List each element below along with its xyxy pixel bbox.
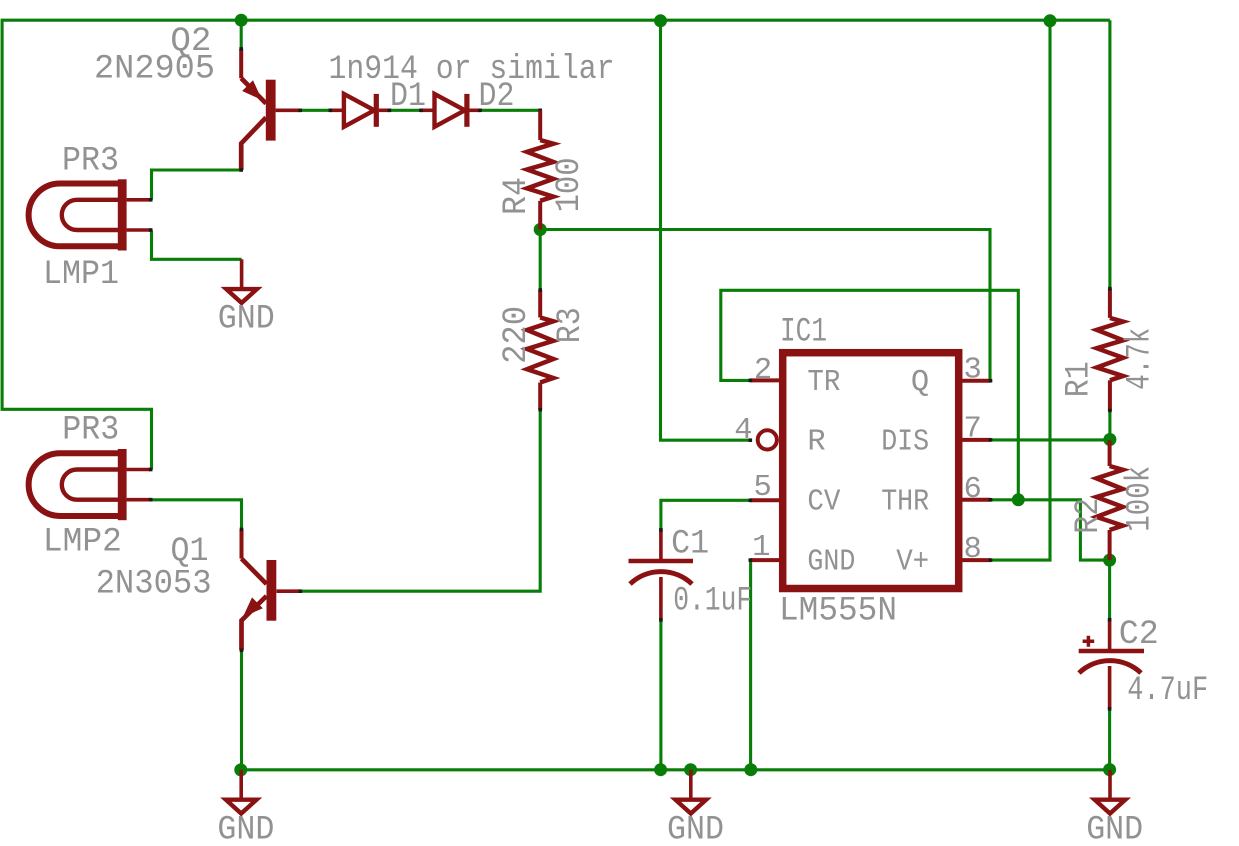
svg-text:THR: THR [881,486,929,520]
IC1 pin 8 V+ stub [962,558,991,562]
svg-text:2N3053: 2N3053 [96,565,212,604]
wire IC1 pin 7 DIS to R1/R2 node [991,438,1110,441]
wire rail to Q2 emitter [240,20,243,49]
svg-text:C2: C2 [1119,615,1159,654]
wire rail to R1 top [1108,20,1111,288]
svg-text:DIS: DIS [881,426,929,460]
svg-text:GND: GND [1086,811,1143,846]
svg-text:8: 8 [964,533,982,567]
svg-text:Q: Q [911,366,929,400]
IC1 pin 3 Q stub [962,379,991,383]
svg-text:3: 3 [964,354,982,388]
IC1 pin 4 R stub and bubble [758,430,777,449]
capacitor C2 (4.7uF, polarized) [1108,620,1112,649]
svg-text:2: 2 [754,354,772,388]
wire IC1 pin 1 GND to ground rail [749,560,752,770]
wire R3 bottom to Q1 base [300,410,540,592]
svg-text:LM555N: LM555N [779,592,897,631]
svg-text:R1: R1 [1060,361,1099,397]
op-amp/timer IC1 LM555N body [783,353,959,589]
svg-text:R2: R2 [1069,498,1108,534]
svg-text:R3: R3 [551,307,590,343]
junction R1 / R2 / DIS [1103,433,1116,446]
wire C2 bottom to ground rail [1108,709,1111,770]
resistor R3 (220) [527,318,553,383]
junction rail / pin4 wire [654,14,667,27]
wire node to C2 top [1108,560,1111,620]
svg-text:5: 5 [753,471,771,505]
transistor Q1 (2N3053, NPN) [242,529,301,650]
wire ground rail [241,768,1110,771]
svg-text:TR: TR [807,366,840,400]
svg-text:GND: GND [218,300,275,339]
svg-text:LMP1: LMP1 [43,255,119,294]
IC1 pin 2 TR stub [750,378,779,382]
ground symbol GND bottom middle [689,770,693,800]
svg-text:6: 6 [964,473,982,507]
svg-text:GND: GND [667,810,724,846]
svg-text:V+: V+ [896,546,929,580]
resistor R2 (100k) [1096,466,1122,530]
junction ground rail / C2 [1103,763,1116,776]
wire rail to IC1 pin 4 R [661,20,751,440]
wire D2 cathode to R4 top [481,109,541,112]
junction R4 / R3 / Q output [534,223,547,236]
wire node R4/R3 to IC1 pin 3 Q [540,230,990,381]
svg-text:R: R [807,426,825,460]
wire C1 top to IC1 pin 5 CV [661,500,750,530]
lamp PR3 pins [127,468,151,472]
svg-text:2N2905: 2N2905 [94,50,215,89]
wire left border to LMP2 top pin [2,20,151,469]
wire Q2 base to D1 anode [300,109,330,112]
resistor R4 (100) [527,140,553,201]
IC1 pin 1 GND stub [750,558,779,562]
transistor Q2 (2N2905, PNP) [241,49,300,170]
wire Q2 collector to LMP1 top pin [152,170,242,200]
diode D2 (1n914) [421,109,435,113]
svg-text:GND: GND [807,546,855,580]
svg-text:LMP2: LMP2 [43,522,122,561]
wire IC1 pin 2 TR loop to THR node [721,290,1019,500]
junction ground rail / pin1 wire [744,763,757,776]
wire LMP2 bottom pin to Q1 collector [151,500,242,530]
resistor R3 bottom lead [538,383,542,410]
svg-text:1: 1 [752,531,770,565]
svg-text:1n914 or similar: 1n914 or similar [329,50,615,89]
wire C1 bottom to ground rail [659,620,662,770]
junction ground rail / Q1 emitter [234,763,247,776]
wire R1 bottom to node [1108,412,1111,440]
svg-text:0.1uF: 0.1uF [673,581,752,620]
junction rail / V+ wire [1044,14,1057,27]
svg-text:C1: C1 [671,525,709,564]
junction R2 / C2 / THR [1103,554,1116,567]
svg-text:R4: R4 [497,177,536,215]
C2 plus sign [1083,636,1095,647]
svg-text:7: 7 [964,412,982,446]
wire D1 cathode to D2 anode [389,109,421,112]
wire +V top rail [1,19,1110,22]
svg-text:100k: 100k [1120,466,1159,532]
resistor R1 top lead [1108,289,1112,318]
svg-text:PR3: PR3 [62,141,119,180]
junction rail / Q2 emitter [235,14,248,27]
resistor R4 top lead [538,110,542,140]
resistor R2 top lead [1108,440,1112,466]
svg-text:PR3: PR3 [62,411,119,450]
wire node to R3 top [539,230,542,291]
ground symbol GND bottom left [239,770,243,800]
lamp PR3 filament [62,200,120,230]
svg-text:220: 220 [497,306,536,364]
svg-text:CV: CV [807,486,841,520]
diode D1 (1n914) [330,109,344,113]
resistor R1 (4.7k) [1097,318,1123,380]
IC1 pin 7 DIS stub [962,438,991,442]
IC1 pin 5 CV stub [750,498,779,502]
ground symbol GND under LMP1 [240,259,244,289]
lamp PR3 (PR3) body [29,184,119,247]
wire LMP1 bottom pin to GND stub [152,230,242,259]
svg-text:GND: GND [217,811,274,846]
resistor R3 top lead [538,290,542,318]
resistor R2 bottom lead [1108,530,1112,560]
wire IC1 pin 8 V+ to top rail [991,20,1051,560]
svg-text:4.7k: 4.7k [1120,328,1159,390]
junction THR / TR loop [1012,493,1025,506]
lamp PR3 filament [62,470,120,500]
wire Q1 emitter to ground rail [240,650,243,770]
svg-text:4: 4 [734,414,752,448]
lamp PR3 pins [127,198,151,202]
resistor R4 bottom lead [538,201,542,230]
wire IC1 pin 6 THR to R2 bottom node [991,500,1110,560]
svg-text:100: 100 [550,157,589,212]
svg-text:4.7uF: 4.7uF [1127,671,1208,710]
ground symbol GND bottom right [1108,770,1112,800]
lamp PR3 (PR3) body [29,453,119,516]
IC1 pin 6 THR stub [962,498,991,502]
junction ground rail / C1 [654,763,667,776]
resistor R1 bottom lead [1108,380,1112,411]
junction ground rail / GND stub [684,763,697,776]
svg-text:IC1: IC1 [780,313,827,352]
capacitor C1 (0.1uF) [659,530,663,559]
